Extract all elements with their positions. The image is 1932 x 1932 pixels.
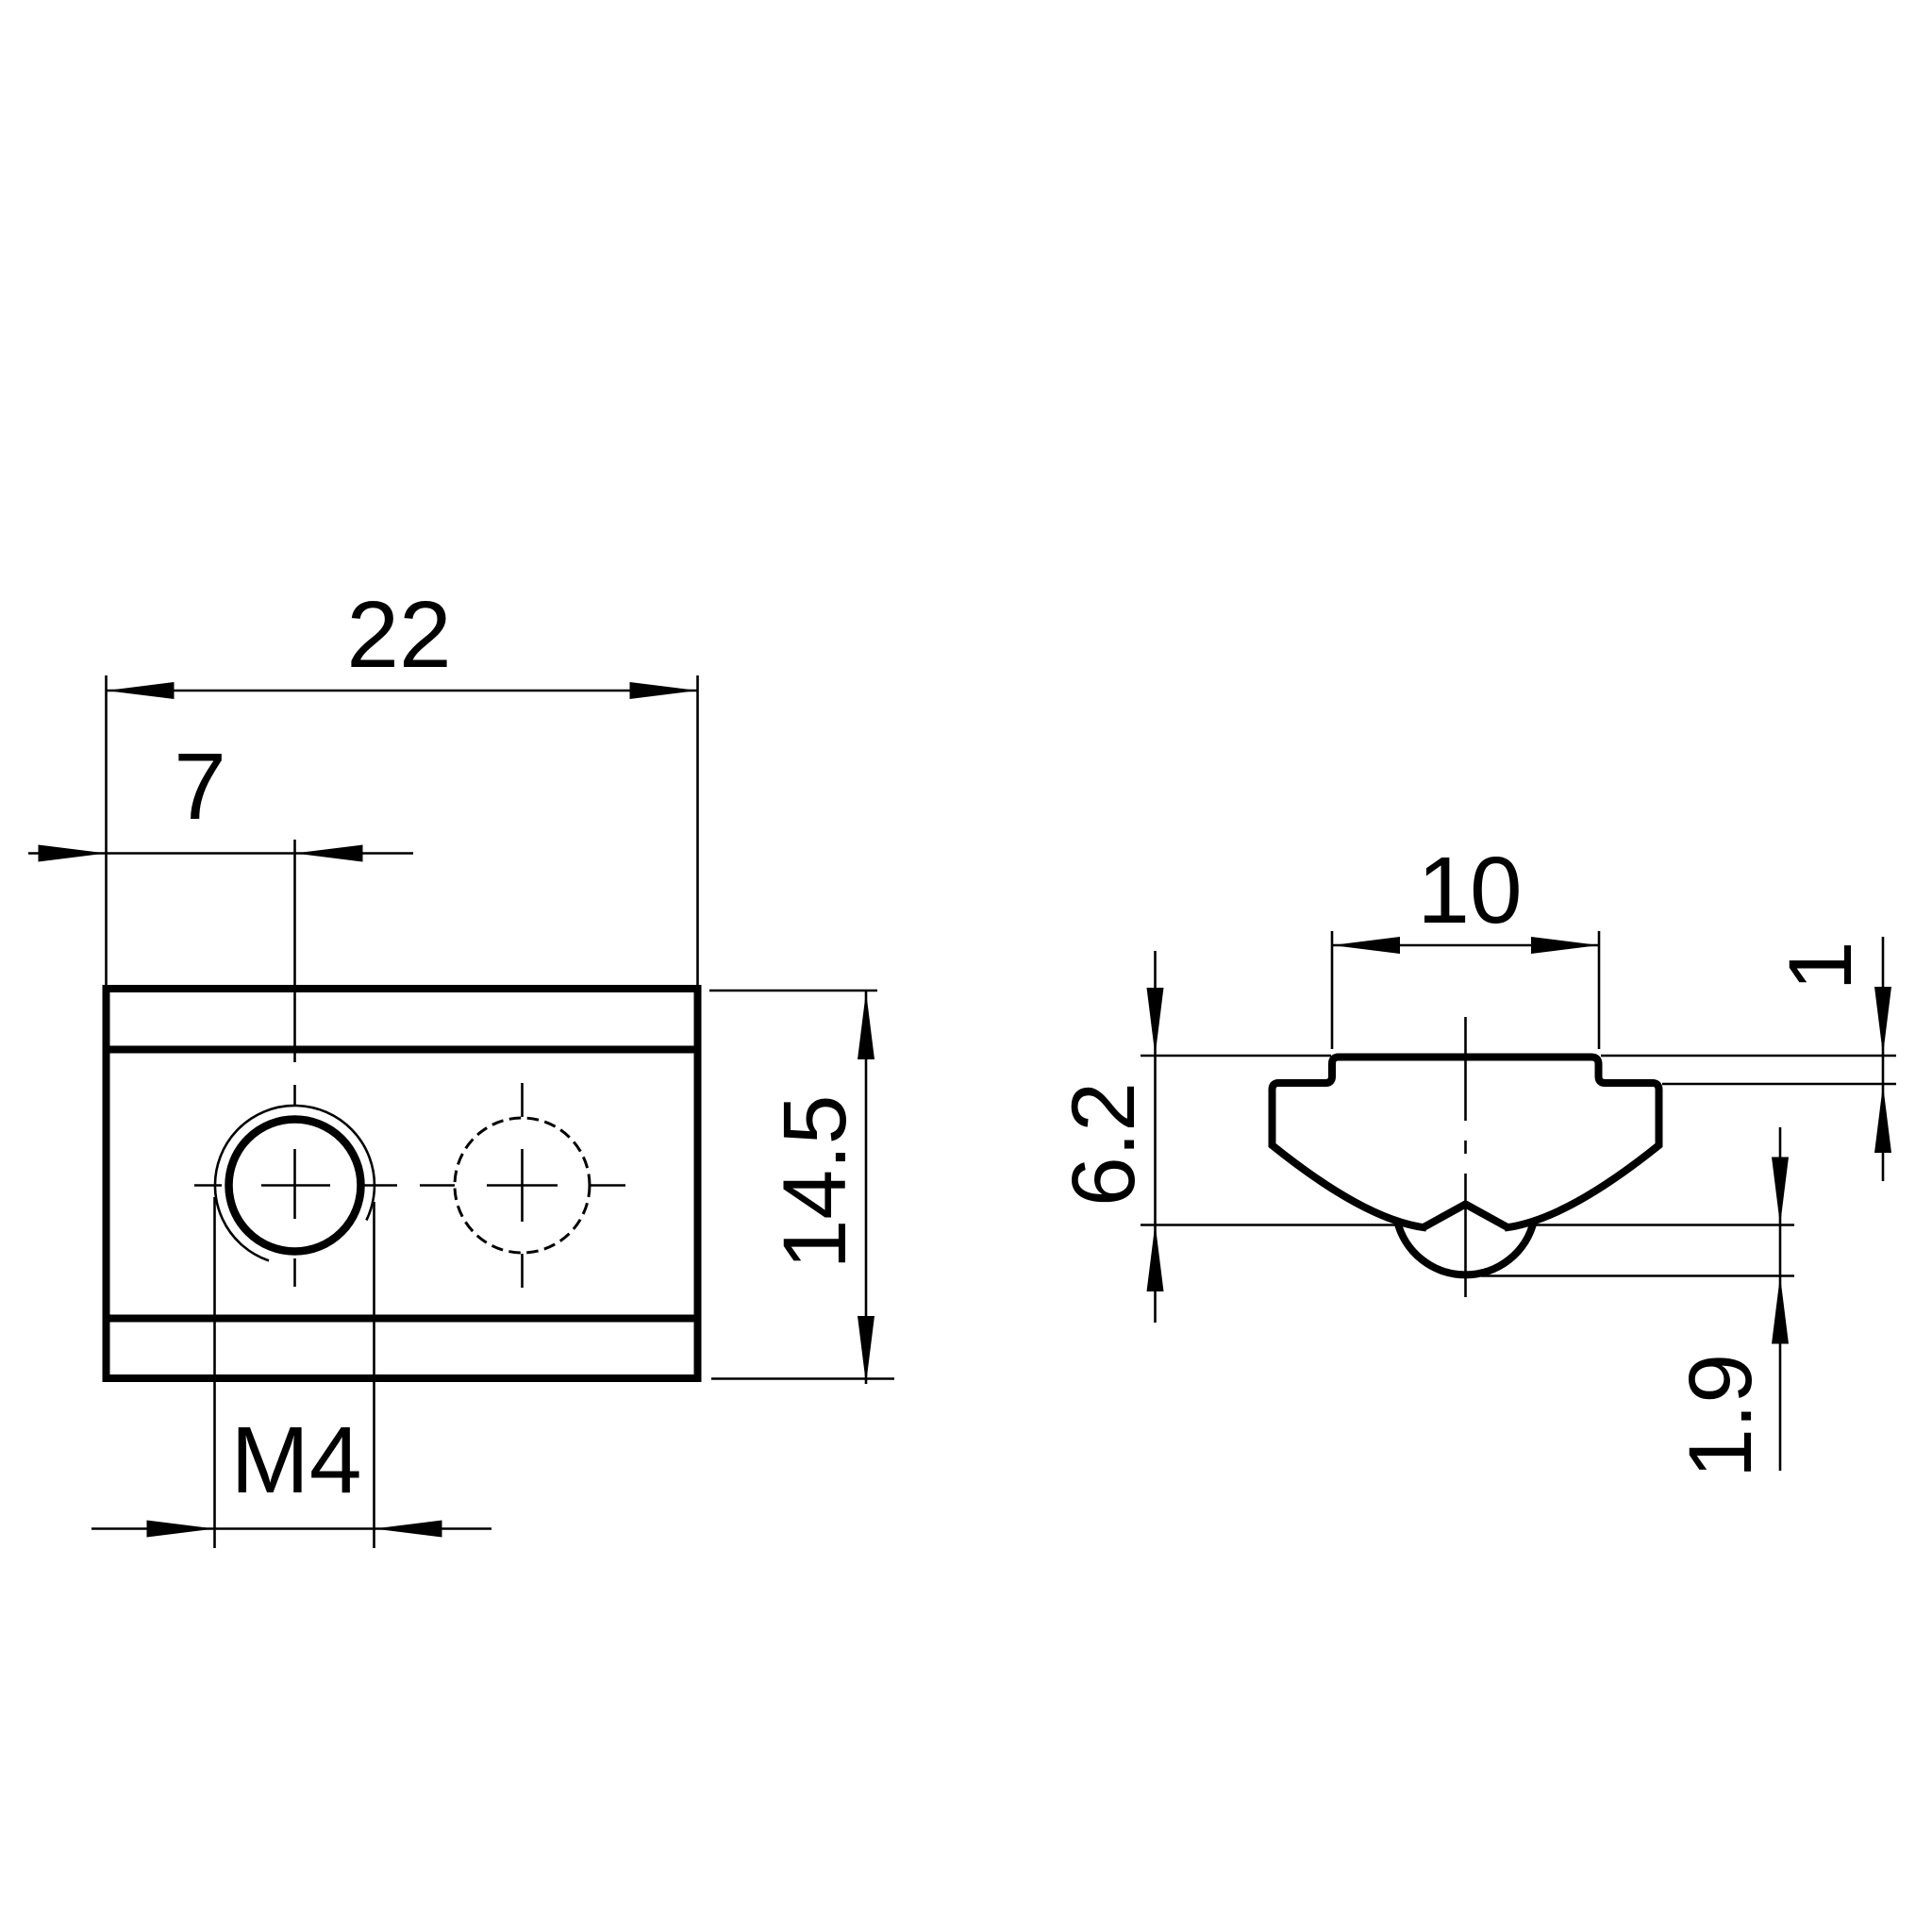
dimension 6.2: bottom arrowhead (outside, pointing up) (1147, 1224, 1164, 1291)
dimension M4: left arrowhead (outside, pointing right) (147, 1521, 215, 1538)
thread major-diameter arc (thin, with gap at lower right) (215, 1106, 375, 1260)
dimension 6.2: dimension line (1154, 951, 1157, 1323)
dimension M4: right arrowhead (outside, pointing left) (375, 1521, 442, 1538)
svg-text:1: 1 (1771, 941, 1871, 991)
svg-text:10: 10 (1417, 838, 1522, 943)
dimension 1.9: top arrowhead (outside, pointing down) (1772, 1158, 1789, 1225)
svg-text:1.9: 1.9 (1671, 1354, 1771, 1478)
dimension 22: left arrowhead (107, 682, 175, 699)
profile vertical centerline long segment 1 (1464, 1017, 1467, 1121)
dimension 1: top arrowhead (outside, pointing down) (1874, 987, 1891, 1055)
horizontal centerline dash between holes 1 (364, 1184, 397, 1187)
dimension 7: left arrowhead (outside, pointing right) (39, 845, 107, 862)
svg-text:M4: M4 (231, 1407, 362, 1513)
dimension 6.2: top arrowhead (outside, pointing down) (1147, 988, 1164, 1056)
profile outline: bottom arcs, side steps, top flat (1273, 1058, 1659, 1228)
dimension 10: right arrowhead (1531, 937, 1599, 954)
dimension M4: dimension line with outside tails (92, 1527, 491, 1530)
spring ball bump arc (1397, 1221, 1534, 1274)
dimension 22: dimension line (107, 690, 698, 692)
dimension 14.5: bottom arrowhead (858, 1316, 874, 1384)
top surface extension line (right, for dim 1) (1601, 1055, 1896, 1058)
dimension 1.9: dimension line (1779, 1127, 1782, 1471)
dimension M4: extension line left (tangent to thread) (213, 1197, 216, 1548)
nut body outline (rectangle 22 x 14.5) (107, 989, 698, 1378)
hole 1 vertical centerline (upper solid segment, also extension of dim 7) (293, 840, 296, 1062)
centering chamfer peak (1424, 1205, 1507, 1228)
dimension 14.5: dimension line (865, 991, 868, 1384)
dimension 22: extension line right (696, 675, 699, 985)
profile vertical centerline short dash (1464, 1141, 1467, 1154)
hole 2 vertical centerline upper segment (521, 1083, 524, 1117)
ball shoulder extension line (right part, for dim 1.9) (1531, 1224, 1794, 1226)
top surface extension line (left, for dim 6.2) (1141, 1055, 1331, 1058)
dimension 1: bottom arrowhead (outside, pointing up) (1874, 1085, 1891, 1153)
dimension 22: extension line left (105, 675, 108, 985)
dimension 14.5: extension line top (709, 990, 877, 992)
nut top chamfer edge line (107, 1046, 698, 1054)
hole 1 center cross horizontal bar (261, 1184, 330, 1187)
svg-text:7: 7 (174, 734, 226, 840)
threaded hole M4 (bold circle) (229, 1120, 361, 1252)
horizontal centerline dash between holes 2 (420, 1184, 455, 1187)
dimension 10: left arrowhead (1332, 937, 1400, 954)
hidden hole (dashed circle) (455, 1118, 590, 1253)
hole 2 vertical centerline lower segment (521, 1254, 524, 1288)
ball shoulder extension line (left part, for dim 6.2) (1141, 1224, 1398, 1226)
dimension 22: right arrowhead (630, 682, 698, 699)
dimension 1: dimension line (1882, 937, 1885, 1181)
svg-text:22: 22 (346, 582, 451, 688)
hole 2 center cross horizontal bar (487, 1184, 558, 1187)
dimension 10: extension line left (1331, 931, 1334, 1049)
hole 1 center cross vertical bar (293, 1149, 296, 1219)
hole 1 vertical centerline short dash (293, 1085, 296, 1106)
dimension 1.9: bottom arrowhead (outside, pointing up) (1772, 1276, 1789, 1344)
step level extension line (right, for dim 1) (1662, 1083, 1896, 1086)
profile vertical centerline long segment 2 (1464, 1174, 1467, 1297)
dimension 10: dimension line (1332, 944, 1599, 947)
dimension 14.5: top arrowhead (858, 991, 874, 1059)
ball bottom extension line (for dim 1.9) (1481, 1274, 1794, 1277)
hole 1 vertical centerline lower dash (293, 1258, 296, 1287)
dimension 10: extension line right (1598, 931, 1601, 1049)
dimension M4: extension line right (tangent to thread) (373, 1202, 375, 1548)
svg-text:6.2: 6.2 (1054, 1082, 1154, 1207)
dimension 7: dimension line with outside tails (28, 852, 413, 855)
nut bottom chamfer edge line (107, 1315, 698, 1323)
hole 2 center cross vertical bar (521, 1149, 524, 1222)
horizontal centerline right segment (590, 1184, 625, 1187)
dimension 14.5: extension line bottom (711, 1377, 894, 1380)
dimension 7: right arrowhead (outside, pointing left) (295, 845, 363, 862)
svg-text:14.5: 14.5 (765, 1095, 865, 1270)
common horizontal centerline left segment (194, 1184, 222, 1187)
